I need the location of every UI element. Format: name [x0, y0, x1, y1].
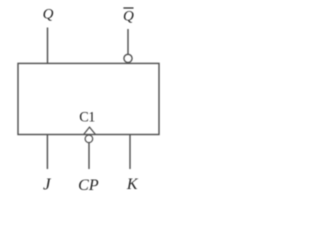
wire K input [129, 135, 131, 170]
flip-flop body U1 [18, 63, 159, 134]
inversion bubble on Q-bar output [124, 54, 132, 62]
svg-text:Q: Q [43, 6, 54, 22]
wire CP input [88, 143, 90, 169]
svg-text:Q: Q [123, 9, 134, 25]
wire J input [46, 135, 48, 170]
wire Q-bar output [127, 29, 129, 54]
node Q-bar overline [123, 7, 133, 9]
inversion bubble on CP input [85, 135, 93, 143]
svg-text:C1: C1 [79, 110, 95, 126]
dynamic clock edge indicator [84, 127, 96, 134]
svg-text:J: J [43, 175, 52, 194]
svg-text:K: K [126, 176, 139, 193]
svg-text:CP: CP [78, 177, 99, 194]
wire Q output [47, 28, 49, 64]
